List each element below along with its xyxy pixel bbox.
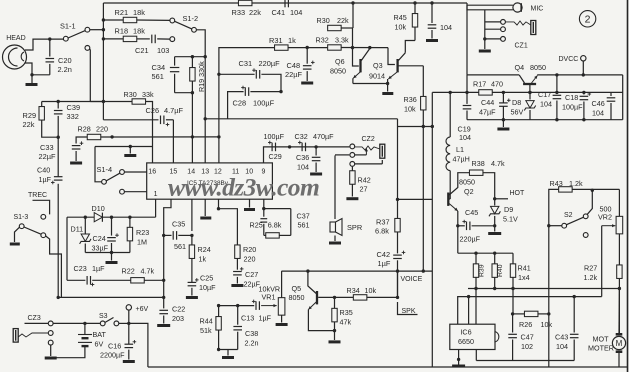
- wire S2 riser: [587, 190, 592, 214]
- svg-text:D11: D11: [71, 225, 84, 234]
- wire Q3 collector: [398, 53, 405, 61]
- svg-text:22k: 22k: [337, 16, 349, 25]
- svg-text:R30: R30: [317, 16, 330, 25]
- capacitor C34: [174, 57, 176, 66]
- svg-text:C17: C17: [538, 90, 551, 99]
- svg-text:Q6: Q6: [335, 57, 345, 66]
- svg-text:561: 561: [174, 242, 186, 251]
- svg-text:D8: D8: [512, 98, 521, 107]
- capacitor C44 electrolytic: [502, 91, 505, 94]
- wire y101.5 left: [42, 101, 132, 103]
- wire bottom rail: [148, 366, 628, 368]
- wire x397.5 upper: [397, 127, 399, 220]
- svg-text:4.7µF: 4.7µF: [164, 106, 184, 115]
- svg-text:22µF: 22µF: [39, 152, 56, 161]
- svg-text:4.7k: 4.7k: [141, 267, 155, 276]
- node x432 y126.5: [431, 125, 434, 128]
- wire pin7 drop gnd: [249, 199, 251, 207]
- svg-text:L1: L1: [456, 145, 464, 154]
- ground head: [31, 75, 33, 83]
- wire pin5 drop: [218, 199, 220, 209]
- svg-text:M: M: [616, 339, 623, 348]
- svg-text:R27: R27: [584, 264, 597, 273]
- svg-text:220µF: 220µF: [460, 235, 481, 244]
- svg-text:104: 104: [592, 109, 604, 118]
- wire R41 to C47 riser: [512, 289, 514, 314]
- capacitor C21: [151, 35, 153, 44]
- wire DVCC riser: [582, 61, 584, 75]
- node VOICE x397.5: [396, 269, 399, 272]
- svg-text:1µF: 1µF: [92, 264, 105, 273]
- wire S1-4 bottom to IC: [124, 191, 146, 193]
- svg-text:C27: C27: [245, 270, 258, 279]
- ground C27: [231, 284, 243, 287]
- svg-text:CZ1: CZ1: [515, 43, 528, 50]
- svg-text:1µF: 1µF: [378, 259, 391, 268]
- wire IC6 riser a: [475, 289, 477, 325]
- node x423 voice: [422, 269, 425, 272]
- ground C36: [310, 173, 322, 176]
- wire C34 bottom: [175, 92, 193, 94]
- svg-text:BAT: BAT: [93, 330, 107, 339]
- svg-text:C28: C28: [233, 99, 247, 108]
- svg-text:C42: C42: [377, 250, 391, 259]
- ground C16: [123, 360, 135, 363]
- svg-text:C18: C18: [565, 93, 578, 102]
- svg-text:220: 220: [244, 255, 256, 264]
- svg-text:R26: R26: [519, 320, 532, 329]
- wire pin8 drop: [263, 199, 265, 217]
- svg-text:C23: C23: [74, 264, 87, 273]
- wire CZ3 bottom drop: [50, 345, 52, 356]
- terminal +6V: [126, 305, 131, 310]
- wire SPR riser: [334, 155, 336, 219]
- svg-text:R24: R24: [198, 245, 211, 254]
- wire rail lower y92.4: [432, 91, 622, 93]
- node C45 left: [456, 224, 459, 227]
- svg-text:100µF: 100µF: [562, 103, 583, 112]
- svg-text:D9: D9: [504, 205, 513, 214]
- wire caps bottom y360.5: [476, 360, 574, 362]
- ground C48: [301, 82, 313, 85]
- node D10 right: [84, 216, 87, 219]
- svg-text:C36: C36: [296, 153, 309, 162]
- svg-text:9014: 9014: [369, 72, 385, 81]
- wire y146.9 row: [266, 146, 350, 148]
- node rail x415: [413, 1, 416, 4]
- svg-text:56V: 56V: [511, 108, 524, 117]
- wire S1-2 riser: [196, 30, 205, 163]
- ground block: [111, 253, 113, 261]
- wire R30 to pin16: [146, 102, 153, 163]
- wire pin3 drop: [191, 199, 193, 231]
- svg-text:100µF: 100µF: [253, 99, 275, 108]
- wire +6V to right riser: [129, 323, 148, 367]
- ground D9: [488, 232, 501, 235]
- svg-text:MOTER: MOTER: [588, 344, 614, 353]
- ground SPR: [334, 236, 336, 242]
- svg-text:10k: 10k: [365, 286, 377, 295]
- wire R38 to HOT node: [483, 173, 495, 199]
- svg-text:C31: C31: [239, 59, 253, 68]
- capacitor C32 electrolytic: [301, 143, 303, 152]
- svg-text:C32: C32: [295, 132, 308, 141]
- node rail x432: [430, 1, 433, 4]
- svg-text:C44: C44: [481, 98, 494, 107]
- resistor R30 33k: [132, 99, 146, 104]
- svg-text:R17: R17: [473, 80, 486, 89]
- resistor R33: [238, 0, 252, 5]
- svg-text:C26: C26: [146, 106, 160, 115]
- wire step corner: [397, 119, 399, 127]
- svg-text:Q3: Q3: [373, 61, 383, 70]
- svg-text:SPK: SPK: [402, 308, 416, 315]
- svg-text:C20: C20: [58, 56, 72, 65]
- svg-text:C45: C45: [465, 208, 478, 217]
- node C29-C32: [288, 145, 291, 148]
- ground C-104: [426, 39, 438, 42]
- ground C22: [157, 324, 170, 327]
- wire pin2 drop: [164, 199, 171, 235]
- svg-text:1x4: 1x4: [518, 273, 530, 282]
- svg-text:51k: 51k: [200, 326, 212, 335]
- svg-text:VR1: VR1: [262, 293, 276, 302]
- svg-text:4.7k: 4.7k: [491, 159, 505, 168]
- capacitor C29 electrolytic: [271, 143, 273, 152]
- resistor R19 vertical: [191, 57, 193, 68]
- svg-text:2.2n: 2.2n: [58, 65, 72, 74]
- svg-text:C40: C40: [37, 166, 50, 175]
- capacitor C19 104: [465, 91, 468, 94]
- wire HOT: [495, 198, 508, 200]
- node head-C20: [30, 73, 33, 76]
- wire block bottom: [85, 252, 130, 254]
- svg-text:6650: 6650: [458, 337, 474, 346]
- wire rail y288.5: [468, 288, 619, 290]
- svg-text:22k: 22k: [23, 120, 35, 129]
- node BAT: [83, 322, 86, 325]
- svg-text:SPR: SPR: [347, 223, 362, 232]
- wire CZ2 middle contact arrow: [355, 154, 367, 156]
- svg-text:8050: 8050: [330, 67, 346, 76]
- wire y217.2: [67, 216, 156, 218]
- svg-text:S2: S2: [564, 212, 573, 219]
- svg-text:HEAD: HEAD: [6, 35, 25, 42]
- wire IC6 bottom stub: [475, 350, 477, 361]
- svg-text:C22: C22: [172, 305, 185, 314]
- jack plug CZ1: [531, 21, 536, 35]
- wire mic lower: [467, 5, 513, 10]
- svg-text:100µF: 100µF: [264, 132, 285, 141]
- diode D8 zener: [528, 91, 531, 94]
- svg-text:1: 1: [154, 191, 158, 198]
- svg-text:C37: C37: [297, 211, 310, 220]
- svg-text:104: 104: [440, 23, 452, 32]
- svg-text:104: 104: [297, 163, 309, 172]
- wire S1-1 lower riser: [89, 49, 92, 102]
- svg-text:R45: R45: [394, 13, 407, 22]
- capacitor C36 104: [315, 147, 317, 156]
- svg-text:10k: 10k: [395, 23, 407, 32]
- wire Q6 base drop: [353, 28, 359, 66]
- svg-text:VR2: VR2: [598, 213, 612, 222]
- svg-text:33µF: 33µF: [92, 244, 109, 253]
- node R43 S2 riser: [591, 189, 594, 192]
- svg-text:R35: R35: [340, 308, 353, 317]
- node Q5 collector: [306, 269, 309, 272]
- svg-text:S3: S3: [99, 313, 108, 320]
- wire Q2 emitter: [449, 204, 458, 212]
- node gnd stub: [129, 145, 132, 148]
- ground R44: [227, 350, 229, 356]
- wire C22 riser: [163, 235, 165, 308]
- svg-text:C13: C13: [241, 314, 254, 323]
- wire C34 top: [175, 56, 206, 58]
- wire rail upper y74.9: [467, 74, 519, 76]
- wire CZ3 top left: [25, 322, 49, 324]
- svg-text:C29: C29: [269, 152, 282, 161]
- wire rail to Q4 riser: [466, 3, 468, 75]
- capacitor C-104 top: [431, 3, 433, 23]
- node C36 riser: [314, 145, 317, 148]
- wire y126.5 to C19: [398, 126, 433, 128]
- node R36 bottom: [422, 125, 425, 128]
- svg-text:MOT: MOT: [593, 335, 610, 344]
- svg-text:1µF: 1µF: [39, 175, 52, 184]
- wire riser x432: [431, 92, 433, 367]
- svg-text:R38: R38: [472, 159, 485, 168]
- svg-text:R28: R28: [78, 125, 91, 134]
- wire CZ3 to S3: [53, 322, 100, 324]
- svg-text:104: 104: [290, 8, 302, 17]
- svg-text:1k: 1k: [288, 36, 296, 45]
- microphone MIC: [513, 3, 522, 12]
- svg-text:VOICE: VOICE: [401, 276, 423, 283]
- svg-text:R33: R33: [232, 8, 246, 17]
- wire head to node: [25, 39, 65, 50]
- svg-text:561: 561: [152, 72, 164, 81]
- svg-text:CZ3: CZ3: [28, 315, 41, 322]
- jack plug CZ3: [13, 329, 18, 343]
- circled figure 2: [579, 11, 595, 27]
- svg-text:HOT: HOT: [510, 190, 526, 197]
- svg-text:1µF: 1µF: [259, 314, 272, 323]
- node y296.6 x574.2: [573, 295, 576, 298]
- svg-text:10k: 10k: [404, 105, 416, 114]
- wire C37 loop: [264, 208, 291, 210]
- wire pin9 riser: [264, 147, 266, 163]
- svg-text:104: 104: [540, 100, 552, 109]
- svg-text:D10: D10: [92, 204, 105, 213]
- wire Q2 collector: [449, 173, 469, 195]
- svg-text:220µF: 220µF: [259, 59, 281, 68]
- svg-text:104: 104: [556, 342, 568, 351]
- wire rail y296.6: [458, 297, 602, 325]
- svg-text:203: 203: [172, 314, 184, 323]
- wire pin4 drop gnd: [204, 199, 206, 216]
- wire motor bottom: [618, 353, 620, 367]
- wire head bottom: [25, 63, 32, 75]
- wire Q5 base: [318, 296, 353, 298]
- svg-text:47µF: 47µF: [479, 108, 496, 117]
- svg-text:C16: C16: [108, 342, 121, 351]
- node y101.5 x104: [102, 100, 105, 103]
- svg-text:332: 332: [67, 112, 79, 121]
- ground C33: [70, 162, 82, 165]
- wire S1-4 middle riser: [95, 147, 102, 182]
- wire C23 left corner: [66, 217, 68, 280]
- svg-text:102: 102: [521, 342, 533, 351]
- svg-text:R21: R21: [115, 8, 129, 17]
- wire CZ2 middle to SPR riser: [335, 154, 349, 156]
- svg-text:R31: R31: [269, 36, 283, 45]
- svg-text:C24: C24: [93, 234, 106, 243]
- wire right corner riser: [622, 75, 624, 120]
- svg-text:C35: C35: [172, 220, 185, 229]
- node C28 right: [279, 90, 282, 93]
- svg-text:33k: 33k: [142, 90, 154, 99]
- node x397.5 y199.4: [396, 198, 399, 201]
- inductor L1 47uH: [449, 91, 452, 94]
- node R28 x112: [110, 135, 113, 138]
- wire left bus x58 lower: [57, 184, 59, 298]
- svg-text:R30: R30: [124, 90, 137, 99]
- wire y305.6 row: [219, 305, 255, 307]
- jack plug CZ2: [380, 144, 385, 158]
- svg-text:R40: R40: [497, 264, 504, 277]
- svg-text:DVCC: DVCC: [559, 56, 579, 63]
- svg-text:6.8k: 6.8k: [375, 227, 389, 236]
- border right edge: [627, 0, 629, 372]
- speaker SPR: [330, 222, 336, 232]
- wire riser tap y199.4: [398, 198, 433, 200]
- svg-text:3.3k: 3.3k: [335, 36, 349, 45]
- svg-text:10k: 10k: [541, 320, 553, 329]
- wire y146.5: [95, 146, 153, 148]
- wire left bus vertical: [102, 3, 104, 120]
- svg-text:Q5: Q5: [292, 284, 302, 293]
- capacitor C46: [610, 92, 612, 96]
- node y296.6 x468.6: [467, 295, 470, 298]
- svg-text:R25: R25: [250, 221, 263, 230]
- ground rail stub: [502, 118, 505, 121]
- wire Q3 base to R36: [398, 65, 423, 67]
- node x192 y56.7: [191, 55, 194, 58]
- svg-text:C25: C25: [200, 274, 213, 283]
- wire pin15 riser: [172, 120, 174, 163]
- svg-text:22µF: 22µF: [285, 70, 302, 79]
- node C48 top: [306, 46, 309, 49]
- wire y253.2 row: [458, 252, 513, 254]
- svg-text:C33: C33: [40, 143, 54, 152]
- svg-text:Q2: Q2: [464, 187, 474, 196]
- wire top rail: [103, 2, 467, 4]
- svg-text:MIC: MIC: [531, 6, 544, 13]
- svg-text:C39: C39: [67, 103, 81, 112]
- svg-text:16: 16: [148, 169, 156, 176]
- svg-text:R36: R36: [404, 95, 417, 104]
- svg-text:C48: C48: [287, 61, 301, 70]
- node C39 R29 join: [57, 136, 60, 139]
- svg-text:18k: 18k: [133, 8, 145, 17]
- svg-text:S1-1: S1-1: [60, 22, 76, 31]
- wire R44 C38 bottom: [219, 349, 238, 351]
- svg-text:C41: C41: [272, 8, 286, 17]
- svg-text:1M: 1M: [137, 238, 147, 247]
- svg-text:1k: 1k: [199, 255, 207, 264]
- ground VR1: [276, 323, 288, 326]
- node R28 right: [217, 135, 220, 138]
- wire CZ2 bottom contact: [355, 163, 383, 165]
- wire S1-4 top to IC: [124, 171, 146, 173]
- capacitor C41: [284, 0, 286, 7]
- svg-text:C38: C38: [245, 329, 258, 338]
- wire motor top: [618, 289, 620, 334]
- svg-text:R37: R37: [376, 218, 390, 227]
- wire L1 to Q2 base: [449, 171, 451, 199]
- svg-text:TREC: TREC: [28, 192, 47, 199]
- capacitor C33 electrolytic: [72, 145, 81, 147]
- svg-text:R32: R32: [316, 36, 329, 45]
- svg-text:R41: R41: [518, 264, 531, 273]
- wire pin5 to R20: [219, 209, 238, 245]
- svg-text:47k: 47k: [340, 318, 352, 327]
- wire x397.5 mid: [397, 232, 399, 254]
- svg-text:470: 470: [491, 80, 503, 89]
- svg-text:8050: 8050: [530, 63, 546, 72]
- wire riser x353: [352, 3, 354, 28]
- svg-text:2: 2: [585, 14, 591, 26]
- node x205 y56.7: [204, 55, 207, 58]
- node y101.5 x58: [57, 100, 60, 103]
- svg-text:S1-2: S1-2: [183, 14, 199, 23]
- svg-text:10µF: 10µF: [199, 283, 216, 292]
- svg-text:R20: R20: [243, 245, 256, 254]
- capacitor C17: [556, 92, 558, 93]
- ground IC6: [452, 365, 465, 368]
- svg-text:R34: R34: [347, 286, 360, 295]
- ground R35: [334, 331, 336, 340]
- wire S1-1 riser corner: [90, 101, 103, 103]
- svg-text:6V: 6V: [95, 340, 104, 349]
- svg-text:R18: R18: [115, 27, 129, 36]
- svg-text:+6V: +6V: [136, 306, 149, 313]
- wire VR2 wiper: [602, 225, 616, 227]
- wire C17 riser: [556, 75, 558, 93]
- wire C13 arrow to VR1: [261, 305, 277, 307]
- capacitor C26: [103, 119, 158, 121]
- svg-text:R39: R39: [479, 264, 486, 277]
- svg-text:C43: C43: [555, 333, 568, 342]
- ground emitters: [387, 84, 389, 92]
- svg-text:22k: 22k: [249, 8, 261, 17]
- wire R26 to S2 riser: [538, 313, 549, 315]
- wire SPK bracket: [397, 271, 399, 297]
- node R19 bottom: [191, 135, 194, 138]
- wire mic upper: [467, 4, 513, 6]
- node rail x353: [351, 1, 354, 4]
- svg-text:470µF: 470µF: [313, 132, 334, 141]
- wire Q5 emitter: [308, 302, 316, 310]
- wire C20 bottom link: [32, 74, 50, 76]
- connector CZ1: [501, 20, 506, 25]
- svg-text:8050: 8050: [289, 293, 305, 302]
- svg-text:18k: 18k: [133, 27, 145, 36]
- wire S1-1 to bus: [90, 29, 104, 31]
- wire IC6 riser b: [468, 297, 470, 325]
- node y297.4 left: [57, 296, 60, 299]
- svg-text:Q4: Q4: [515, 63, 525, 72]
